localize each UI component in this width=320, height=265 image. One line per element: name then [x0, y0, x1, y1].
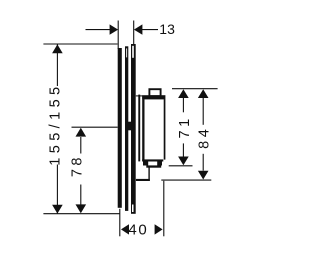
- dim 13 left stem: [86, 29, 111, 31]
- svg-text:13: 13: [159, 21, 175, 37]
- dim 40 right arrowhead: [155, 224, 163, 234]
- handle body left edge: [142, 99, 144, 161]
- dim 71 up arrowhead: [178, 89, 189, 98]
- dim 40 right boundary line: [163, 181, 165, 237]
- dim 13 left arrowhead: [110, 24, 119, 34]
- collar bottom band: [146, 165, 161, 167]
- dim 155/78 bottom extension line: [43, 213, 119, 215]
- dim 40 left arrowhead: [121, 224, 129, 234]
- dim 84 line lower segment: [202, 154, 204, 171]
- dim 40 left boundary line: [119, 209, 121, 237]
- handle flange: [142, 95, 165, 99]
- handle lower sleeve right edge: [148, 168, 149, 182]
- dim 71 line upper segment: [182, 98, 184, 113]
- dim 13 extension line right: [133, 21, 135, 45]
- svg-text:40: 40: [128, 222, 148, 239]
- escutcheon rear box: [125, 46, 128, 211]
- svg-text:78: 78: [70, 154, 86, 177]
- handle lower sleeve bottom band: [136, 179, 150, 181]
- dim 155 line lower segment: [56, 165, 58, 214]
- dim 71 bottom extension line: [169, 165, 193, 167]
- dim 71/84 top extension line: [172, 88, 218, 90]
- dim 84 down arrowhead: [198, 171, 209, 180]
- wall sleeve bar: [118, 48, 122, 208]
- svg-text:71: 71: [177, 115, 193, 138]
- escutcheon plate 155 box: [131, 44, 136, 214]
- dim 84 line upper segment: [202, 98, 204, 125]
- flange lead line: [136, 95, 143, 96]
- svg-text:155/155: 155/155: [47, 82, 63, 165]
- handle rear sleeve bar: [138, 95, 140, 162]
- handle body bottom edge: [142, 159, 163, 161]
- dim 71 line lower segment: [182, 143, 184, 157]
- collar right block: [157, 161, 162, 165]
- dim 84 bottom extension line: [161, 179, 211, 181]
- collar left block: [143, 161, 148, 165]
- dim 78 line lower segment: [80, 185, 82, 205]
- centre extension line: [72, 126, 118, 128]
- dim 71 down arrowhead: [178, 157, 189, 166]
- dim 155 top extension line: [43, 43, 117, 45]
- dim 78 up arrowhead: [76, 128, 87, 137]
- dim 155 line upper segment: [56, 44, 58, 86]
- dim 13 extension line left: [117, 21, 119, 50]
- dim 78 down arrowhead: [76, 204, 87, 213]
- svg-text:84: 84: [196, 126, 212, 149]
- handle axis pin: [128, 122, 133, 131]
- handle top knob: [149, 89, 160, 96]
- dim 13 right arrowhead: [134, 24, 143, 34]
- dim 155 down arrowhead: [52, 205, 63, 214]
- dim 78 line upper segment: [80, 137, 82, 154]
- dim 13 right stem: [142, 29, 158, 31]
- dim 155 up arrowhead: [52, 44, 63, 53]
- dim 84 up arrowhead: [198, 89, 209, 98]
- handle body right edge: [164, 99, 166, 159]
